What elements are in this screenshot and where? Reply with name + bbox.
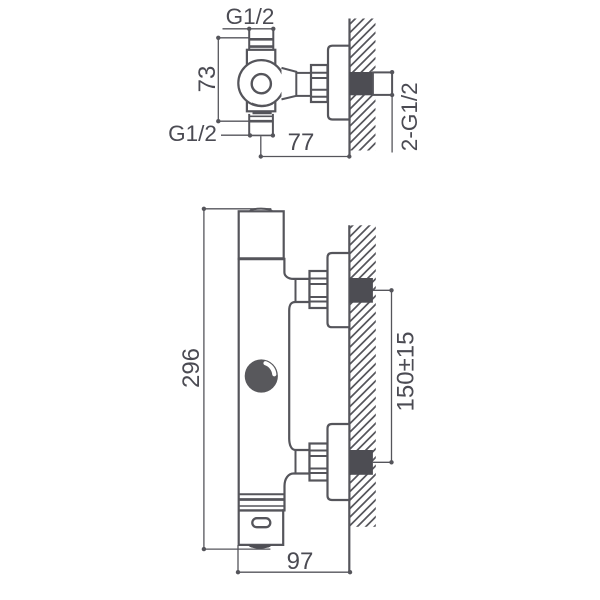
svg-text:G1/2: G1/2 bbox=[168, 121, 217, 146]
svg-text:150±15: 150±15 bbox=[393, 332, 420, 412]
svg-text:2-G1/2: 2-G1/2 bbox=[397, 82, 422, 151]
svg-text:73: 73 bbox=[194, 66, 221, 93]
svg-text:296: 296 bbox=[178, 348, 205, 388]
svg-text:G1/2: G1/2 bbox=[226, 4, 275, 29]
svg-text:97: 97 bbox=[287, 548, 314, 575]
svg-text:77: 77 bbox=[288, 129, 315, 156]
